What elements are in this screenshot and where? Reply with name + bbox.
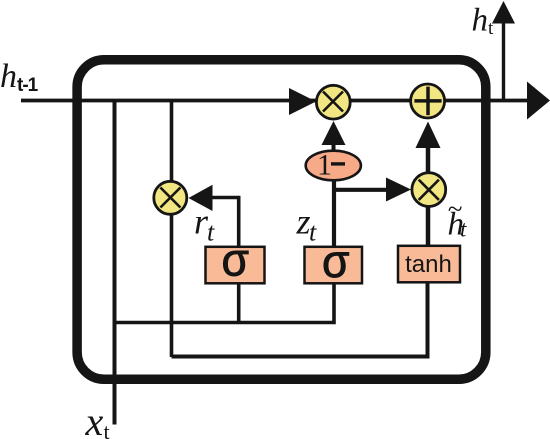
svg-text:1: 1 bbox=[317, 149, 332, 182]
svg-text:σ: σ bbox=[222, 234, 250, 286]
svg-text:x: x bbox=[85, 399, 104, 439]
svg-text:t: t bbox=[460, 217, 467, 242]
svg-text:h: h bbox=[0, 58, 17, 95]
svg-text:t: t bbox=[309, 218, 317, 247]
svg-text:tanh: tanh bbox=[405, 251, 452, 278]
svg-text:t: t bbox=[207, 218, 215, 247]
svg-text:σ: σ bbox=[322, 235, 350, 287]
svg-text:t-1: t-1 bbox=[17, 75, 39, 96]
svg-text:h: h bbox=[472, 3, 489, 39]
svg-text:t: t bbox=[488, 18, 494, 39]
svg-text:t: t bbox=[104, 419, 110, 439]
